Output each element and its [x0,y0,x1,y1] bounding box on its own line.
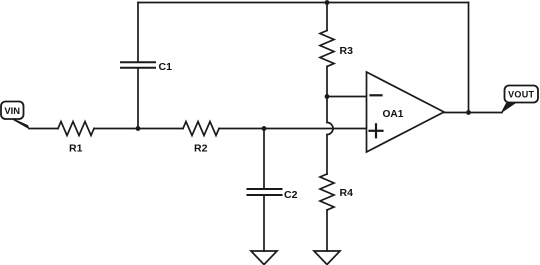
svg-text:VOUT: VOUT [508,90,534,100]
op-amp OA1 minus symbol [371,94,382,96]
wire C1 bottom lead [137,68,139,129]
node junction C2 on main wire [262,126,267,131]
node junction output [466,110,471,115]
svg-text:OA1: OA1 [383,109,404,120]
node VOUT flag [501,86,539,114]
ground under R4 [314,251,340,265]
node junction top R3 [325,0,330,5]
wire R3 bottom lead to minus node [326,67,328,97]
svg-text:VIN: VIN [4,105,20,116]
resistor R2 [183,122,219,136]
wire op-amp output [444,112,502,114]
wire R4 bottom lead [326,210,328,251]
wire R3 top lead [326,3,328,31]
capacitor C2 [248,189,282,195]
svg-text:C1: C1 [159,61,173,73]
svg-text:C2: C2 [284,189,298,201]
svg-text:R4: R4 [340,187,354,199]
ground under C2 [251,251,277,265]
svg-text:R2: R2 [194,142,208,154]
resistor R4 [320,174,334,210]
wire vertical with hop over main wire [327,97,333,175]
svg-text:R3: R3 [340,45,354,57]
resistor R3 [320,31,334,67]
wire right feedback vertical [468,3,470,113]
node junction minus input [325,94,330,99]
wire minus input [327,96,367,98]
node junction C1 on main wire [136,126,141,131]
capacitor C1 [121,62,155,68]
wire R1 to R2 [94,128,183,130]
wire top feedback from C1 branch to output branch [138,2,469,4]
op-amp OA1 plus symbol [370,124,383,137]
op-amp OA1 [367,72,445,152]
wire C2 top lead [263,129,265,190]
wire main from VIN to R1 [29,128,58,130]
wire C1 top lead [137,3,139,63]
node VIN flag [1,102,29,130]
wire R2 to op-amp plus input [219,128,367,130]
svg-text:R1: R1 [69,142,83,154]
wire C2 bottom lead [263,195,265,251]
resistor R1 [58,122,94,136]
